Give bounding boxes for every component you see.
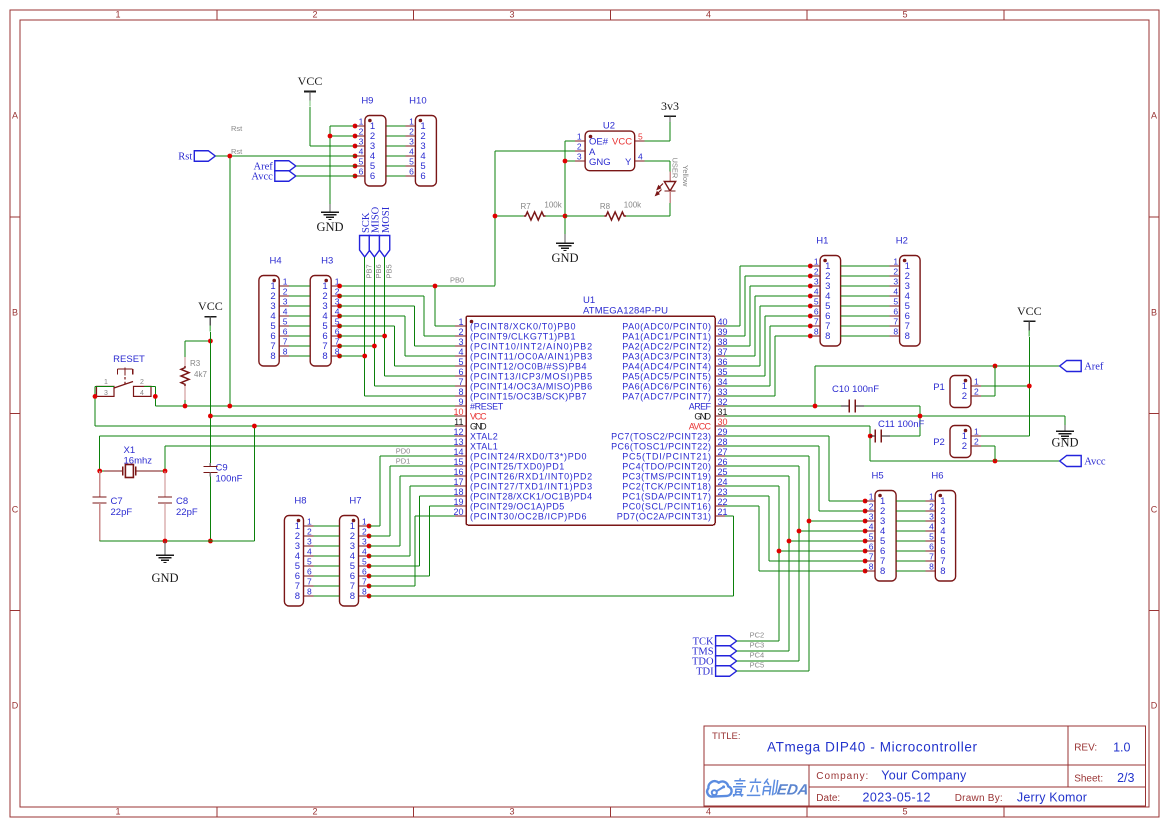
svg-text:U2: U2 bbox=[603, 120, 615, 131]
wires H7 to U1 port D staircase bbox=[369, 456, 455, 586]
svg-text:2: 2 bbox=[962, 441, 967, 452]
resistor R8 bbox=[565, 201, 670, 221]
junction dots R7 row bbox=[493, 214, 568, 219]
svg-text:3: 3 bbox=[509, 10, 514, 20]
svg-text:5: 5 bbox=[458, 357, 463, 367]
net flag TDI bbox=[696, 666, 737, 678]
wires H4 to H3 bbox=[289, 286, 310, 356]
svg-text:D: D bbox=[12, 701, 19, 711]
svg-text:34: 34 bbox=[718, 377, 728, 387]
svg-text:4k7: 4k7 bbox=[194, 370, 207, 379]
svg-text:2: 2 bbox=[362, 527, 367, 537]
svg-text:33: 33 bbox=[718, 387, 728, 397]
svg-text:5: 5 bbox=[409, 157, 414, 167]
svg-text:2: 2 bbox=[893, 267, 898, 277]
wire AVCC to C11 and Avcc flag bbox=[725, 426, 1060, 461]
svg-text:1: 1 bbox=[115, 807, 120, 817]
svg-text:PC5(TDI/PCINT21): PC5(TDI/PCINT21) bbox=[622, 451, 711, 461]
net flag TCK bbox=[693, 636, 737, 648]
svg-text:8: 8 bbox=[270, 351, 275, 362]
svg-text:21: 21 bbox=[718, 507, 728, 517]
svg-text:3: 3 bbox=[458, 337, 463, 347]
svg-text:6: 6 bbox=[409, 167, 414, 177]
wire U2 pin1/pin3 to GND bbox=[565, 141, 575, 234]
svg-text:GND: GND bbox=[470, 421, 487, 431]
svg-text:7: 7 bbox=[929, 552, 934, 562]
svg-text:6: 6 bbox=[458, 367, 463, 377]
svg-text:VCC: VCC bbox=[298, 74, 323, 88]
svg-text:8: 8 bbox=[283, 347, 288, 357]
svg-text:AVCC: AVCC bbox=[689, 421, 712, 431]
svg-text:8: 8 bbox=[940, 566, 945, 577]
svg-text:R7: R7 bbox=[521, 202, 532, 211]
svg-text:7: 7 bbox=[307, 577, 312, 587]
svg-text:PC6(TOSC1/PCINT22): PC6(TOSC1/PCINT22) bbox=[611, 441, 711, 451]
svg-text:C8: C8 bbox=[176, 496, 188, 507]
svg-text:C7: C7 bbox=[111, 496, 123, 507]
ground symbol GND (right) bbox=[1051, 425, 1078, 450]
svg-text:VCC: VCC bbox=[1017, 304, 1042, 318]
svg-text:11: 11 bbox=[454, 417, 463, 427]
wire net PB0 bbox=[339, 286, 495, 326]
svg-text:(PCINT25/TXD0)PD1: (PCINT25/TXD0)PD1 bbox=[470, 461, 564, 471]
svg-text:1: 1 bbox=[115, 10, 120, 20]
svg-text:(PCINT14/OC3A/MISO)PB6: (PCINT14/OC3A/MISO)PB6 bbox=[470, 381, 592, 391]
svg-text:2: 2 bbox=[962, 391, 967, 402]
svg-text:GND: GND bbox=[551, 251, 578, 265]
wires JTAG flags to verticals bbox=[737, 641, 809, 671]
svg-text:1: 1 bbox=[359, 117, 364, 127]
junction dots #RESET row bbox=[183, 339, 233, 409]
svg-text:AREF: AREF bbox=[689, 401, 712, 411]
junction dot GND row bbox=[252, 424, 257, 429]
svg-text:GND: GND bbox=[694, 411, 711, 421]
svg-text:1: 1 bbox=[869, 492, 874, 502]
junction dot RESET left bbox=[93, 394, 98, 399]
svg-text:PC2: PC2 bbox=[750, 631, 765, 640]
svg-text:(PCINT28/XCK1/OC1B)PD4: (PCINT28/XCK1/OC1B)PD4 bbox=[470, 491, 592, 501]
svg-text:ATMEGA1284P-PU: ATMEGA1284P-PU bbox=[583, 306, 668, 317]
junction dot RESET right bbox=[153, 394, 158, 399]
svg-text:4: 4 bbox=[706, 807, 711, 817]
svg-text:(PCINT30/OC2B/ICP)PD6: (PCINT30/OC2B/ICP)PD6 bbox=[470, 511, 587, 521]
svg-text:MOSI: MOSI bbox=[381, 206, 392, 233]
svg-text:(PCINT13/ICP3/MOSI)PB5: (PCINT13/ICP3/MOSI)PB5 bbox=[470, 371, 592, 381]
wire 3v3 to U2 pin5 bbox=[645, 122, 670, 141]
net labels PC2 PC3 PC4 PC5 (gray) bbox=[750, 631, 765, 670]
svg-text:12: 12 bbox=[453, 427, 463, 437]
svg-text:3: 3 bbox=[577, 152, 582, 162]
svg-text:PA2(ADC2/PCINT2): PA2(ADC2/PCINT2) bbox=[622, 341, 711, 351]
svg-text:Avcc: Avcc bbox=[1084, 457, 1106, 468]
svg-text:3: 3 bbox=[283, 297, 288, 307]
net flag SCK bbox=[360, 212, 372, 257]
wire VCC right vertical to P1/P2 bbox=[981, 337, 1030, 436]
svg-text:8: 8 bbox=[825, 331, 830, 342]
wire P1 pin2 to Aref bbox=[981, 366, 995, 396]
svg-text:5: 5 bbox=[902, 807, 907, 817]
header H7 bbox=[340, 496, 369, 607]
wire PB0/A net: U2 pin2 down to PB0 row bbox=[495, 151, 575, 286]
junction dot U2 GND bbox=[563, 159, 568, 164]
svg-text:(PCINT11/OC0A/AIN1)PB3: (PCINT11/OC0A/AIN1)PB3 bbox=[470, 351, 592, 361]
svg-text:4: 4 bbox=[307, 547, 312, 557]
wire GND row to U1 pin11 bbox=[95, 426, 455, 541]
svg-text:PD1: PD1 bbox=[396, 457, 411, 466]
wires SCK/MISO/MOSI verticals to U1 pins 8/7/6 bbox=[365, 257, 455, 396]
svg-text:R8: R8 bbox=[600, 202, 611, 211]
svg-text:26: 26 bbox=[718, 457, 728, 467]
svg-text:6: 6 bbox=[283, 327, 288, 337]
svg-text:1: 1 bbox=[814, 257, 819, 267]
svg-text:7: 7 bbox=[362, 577, 367, 587]
svg-text:5: 5 bbox=[283, 317, 288, 327]
svg-text:5: 5 bbox=[893, 297, 898, 307]
junction dots H1 column bbox=[808, 264, 813, 339]
junction dot VCC/P1 bbox=[1027, 384, 1032, 389]
wires U1 port C to H5 staircase bbox=[725, 436, 865, 571]
svg-text:1: 1 bbox=[104, 379, 108, 386]
svg-text:8: 8 bbox=[814, 327, 819, 337]
svg-text:C: C bbox=[1151, 505, 1158, 515]
svg-text:2: 2 bbox=[577, 142, 582, 152]
svg-text:5: 5 bbox=[929, 532, 934, 542]
power flag VCC (left) bbox=[198, 299, 223, 332]
svg-text:H10: H10 bbox=[409, 96, 426, 107]
junction dots crystal row bbox=[97, 469, 167, 474]
svg-text:35: 35 bbox=[718, 367, 728, 377]
svg-text:B: B bbox=[12, 308, 18, 318]
svg-text:2: 2 bbox=[814, 267, 819, 277]
svg-text:22pF: 22pF bbox=[176, 507, 198, 518]
svg-text:22: 22 bbox=[718, 497, 728, 507]
svg-text:Drawn By:: Drawn By: bbox=[955, 793, 1003, 804]
wire VCC vertical through C9 to GND rail bbox=[209, 332, 211, 541]
capacitor C8 bbox=[158, 471, 198, 541]
svg-text:A: A bbox=[12, 111, 18, 121]
svg-text:2: 2 bbox=[409, 127, 414, 137]
svg-text:6: 6 bbox=[370, 171, 375, 182]
svg-text:PA3(ADC3/PCINT3): PA3(ADC3/PCINT3) bbox=[622, 351, 711, 361]
svg-text:3: 3 bbox=[869, 512, 874, 522]
svg-text:5: 5 bbox=[814, 297, 819, 307]
svg-text:R3: R3 bbox=[190, 359, 201, 368]
svg-text:6: 6 bbox=[893, 307, 898, 317]
title block bbox=[704, 726, 1145, 806]
header H5 bbox=[865, 471, 896, 582]
svg-text:1: 1 bbox=[458, 317, 463, 327]
svg-text:100k: 100k bbox=[544, 201, 562, 210]
power flag VCC (right) bbox=[1017, 304, 1042, 337]
wire GND vertical to H9 pins 1-2 bbox=[330, 126, 355, 204]
svg-text:H8: H8 bbox=[294, 496, 306, 507]
svg-text:4: 4 bbox=[359, 147, 364, 157]
svg-text:H3: H3 bbox=[321, 256, 333, 267]
svg-text:2: 2 bbox=[307, 527, 312, 537]
svg-text:1: 1 bbox=[974, 377, 979, 387]
junction dot Rst bbox=[227, 154, 232, 159]
svg-text:TITLE:: TITLE: bbox=[712, 731, 741, 742]
net labels PD0 PD1 (gray) bbox=[396, 447, 411, 466]
svg-text:3: 3 bbox=[359, 137, 364, 147]
svg-text:5: 5 bbox=[638, 132, 643, 142]
svg-text:25: 25 bbox=[718, 467, 728, 477]
svg-text:4: 4 bbox=[706, 10, 711, 20]
svg-text:2: 2 bbox=[869, 502, 874, 512]
wire GND bottom rail bbox=[100, 540, 255, 542]
svg-text:4: 4 bbox=[362, 547, 367, 557]
svg-text:17: 17 bbox=[453, 477, 463, 487]
svg-text:VCC: VCC bbox=[612, 137, 632, 148]
svg-text:27: 27 bbox=[718, 447, 728, 457]
junction dots H3 column bbox=[337, 284, 342, 359]
svg-text:10: 10 bbox=[453, 407, 463, 417]
svg-text:5: 5 bbox=[869, 532, 874, 542]
svg-text:P2: P2 bbox=[933, 437, 945, 448]
svg-text:5: 5 bbox=[362, 557, 367, 567]
svg-text:7: 7 bbox=[869, 552, 874, 562]
svg-text:RESET: RESET bbox=[113, 354, 145, 365]
svg-text:(PCINT15/OC3B/SCK)PB7: (PCINT15/OC3B/SCK)PB7 bbox=[470, 391, 587, 401]
svg-text:Aref: Aref bbox=[1084, 362, 1104, 373]
junction dot GND rail / C8 bbox=[163, 539, 168, 544]
svg-text:8: 8 bbox=[893, 327, 898, 337]
net flag Rst bbox=[178, 151, 215, 163]
pushbutton RESET bbox=[97, 354, 152, 397]
svg-text:1: 1 bbox=[409, 117, 414, 127]
svg-text:X1: X1 bbox=[124, 445, 136, 456]
svg-text:3: 3 bbox=[104, 390, 108, 397]
svg-text:6: 6 bbox=[420, 171, 425, 182]
svg-text:PD0: PD0 bbox=[396, 447, 411, 456]
net flag Avcc (left) bbox=[251, 171, 295, 183]
crystal X1 16mhz bbox=[100, 445, 165, 478]
header H6 bbox=[925, 471, 955, 582]
svg-text:38: 38 bbox=[718, 337, 728, 347]
wires H3 to U1 port B staircase bbox=[340, 296, 455, 366]
header P2 bbox=[933, 426, 981, 458]
svg-text:PC4: PC4 bbox=[750, 651, 765, 660]
svg-text:2: 2 bbox=[140, 379, 144, 386]
svg-text:PA6(ADC6/PCINT6): PA6(ADC6/PCINT6) bbox=[622, 381, 711, 391]
svg-text:4: 4 bbox=[140, 390, 144, 397]
svg-text:100nF: 100nF bbox=[216, 474, 243, 485]
power flag VCC (top, H9 area) bbox=[298, 74, 323, 107]
svg-text:4: 4 bbox=[869, 522, 874, 532]
svg-text:37: 37 bbox=[718, 347, 728, 357]
svg-text:Y: Y bbox=[625, 157, 632, 168]
capacitor C11 bbox=[870, 419, 924, 443]
svg-text:6: 6 bbox=[307, 567, 312, 577]
svg-text:15: 15 bbox=[453, 457, 463, 467]
svg-text:C11 100nF: C11 100nF bbox=[878, 419, 924, 430]
svg-text:5: 5 bbox=[307, 557, 312, 567]
svg-text:A: A bbox=[1151, 111, 1157, 121]
svg-text:8: 8 bbox=[929, 562, 934, 572]
junction dots H9 column bbox=[328, 124, 358, 179]
wire XTAL2 to U1 pin12 bbox=[100, 436, 455, 471]
svg-text:2: 2 bbox=[312, 10, 317, 20]
svg-text:H5: H5 bbox=[871, 471, 883, 482]
svg-text:4: 4 bbox=[638, 152, 643, 162]
junction dots H7 column bbox=[367, 524, 372, 599]
svg-text:Avcc: Avcc bbox=[251, 172, 273, 183]
header H8 bbox=[284, 496, 313, 607]
svg-text:2: 2 bbox=[458, 327, 463, 337]
svg-text:PC5: PC5 bbox=[750, 661, 765, 670]
svg-text:7: 7 bbox=[814, 317, 819, 327]
svg-text:(PCINT9/CLKG7T1)PB1: (PCINT9/CLKG7T1)PB1 bbox=[470, 331, 576, 341]
svg-text:28: 28 bbox=[718, 437, 728, 447]
svg-text:18: 18 bbox=[453, 487, 463, 497]
junction dots SPI column bbox=[362, 334, 387, 359]
svg-text:PB6: PB6 bbox=[374, 264, 383, 278]
svg-text:2: 2 bbox=[312, 807, 317, 817]
header H2 bbox=[890, 236, 921, 347]
svg-text:1: 1 bbox=[577, 132, 582, 142]
svg-text:ATmega DIP40 - Microcontroller: ATmega DIP40 - Microcontroller bbox=[767, 740, 978, 755]
wires JTAG verticals down to flags bbox=[779, 521, 809, 671]
capacitor C10 bbox=[832, 384, 920, 436]
net flag Avcc (right) bbox=[1060, 456, 1106, 468]
net flag TMS bbox=[692, 646, 737, 658]
svg-text:U1: U1 bbox=[583, 295, 595, 306]
svg-text:2: 2 bbox=[929, 502, 934, 512]
svg-text:6: 6 bbox=[362, 567, 367, 577]
svg-text:8: 8 bbox=[362, 587, 367, 597]
svg-text:2: 2 bbox=[283, 287, 288, 297]
svg-text:39: 39 bbox=[718, 327, 728, 337]
svg-text:GND: GND bbox=[151, 571, 178, 585]
svg-text:2: 2 bbox=[974, 437, 979, 447]
svg-text:19: 19 bbox=[453, 497, 463, 507]
svg-text:(PCINT12/OC0B/#SS)PB4: (PCINT12/OC0B/#SS)PB4 bbox=[470, 361, 587, 371]
svg-text:1: 1 bbox=[929, 492, 934, 502]
svg-text:7: 7 bbox=[458, 377, 463, 387]
svg-text:24: 24 bbox=[718, 477, 728, 487]
svg-text:8: 8 bbox=[458, 387, 463, 397]
junction dots VCC net bbox=[208, 414, 213, 544]
resistor R3 bbox=[181, 341, 210, 406]
svg-text:8: 8 bbox=[880, 566, 885, 577]
svg-text:4: 4 bbox=[409, 147, 414, 157]
svg-text:3: 3 bbox=[893, 277, 898, 287]
svg-text:23: 23 bbox=[718, 487, 728, 497]
wire AREF to C10 and Aref flag bbox=[725, 366, 1060, 406]
svg-text:PA1(ADC1/PCINT1): PA1(ADC1/PCINT1) bbox=[622, 331, 711, 341]
svg-text:3: 3 bbox=[929, 512, 934, 522]
svg-text:2: 2 bbox=[359, 127, 364, 137]
svg-text:2023-05-12: 2023-05-12 bbox=[863, 791, 931, 805]
svg-text:40: 40 bbox=[718, 317, 728, 327]
svg-text:Company:: Company: bbox=[816, 771, 868, 782]
capacitor C7 bbox=[93, 471, 133, 541]
svg-text:USER: USER bbox=[671, 158, 680, 179]
svg-text:16: 16 bbox=[453, 467, 463, 477]
svg-text:PB7: PB7 bbox=[365, 264, 374, 278]
ground symbol GND (H9 area) bbox=[316, 204, 343, 234]
svg-text:Sheet:: Sheet: bbox=[1074, 774, 1103, 785]
svg-text:30: 30 bbox=[718, 417, 728, 427]
svg-text:32: 32 bbox=[718, 397, 728, 407]
svg-text:22pF: 22pF bbox=[111, 507, 133, 518]
svg-text:8: 8 bbox=[905, 331, 910, 342]
svg-text:H9: H9 bbox=[361, 96, 373, 107]
svg-text:REV:: REV: bbox=[1074, 743, 1097, 754]
svg-text:PA4(ADC4/PCINT4): PA4(ADC4/PCINT4) bbox=[622, 361, 711, 371]
svg-text:GND: GND bbox=[316, 220, 343, 234]
wire RESET right side to #RESET row bbox=[144, 386, 155, 406]
svg-text:5: 5 bbox=[359, 157, 364, 167]
wire GND row to right GND bbox=[725, 416, 1065, 425]
svg-text:H1: H1 bbox=[816, 236, 828, 247]
wire VCC row to U1 pin10 bbox=[210, 415, 455, 417]
svg-text:6: 6 bbox=[814, 307, 819, 317]
net labels PB7 PB6 PB5 (gray) bbox=[365, 264, 394, 278]
wires H5 to H6 bbox=[896, 501, 925, 571]
svg-text:8: 8 bbox=[869, 562, 874, 572]
svg-text:1: 1 bbox=[307, 517, 312, 527]
svg-text:PD7(OC2A/PCINT31): PD7(OC2A/PCINT31) bbox=[617, 511, 711, 521]
wire Avcc to H9 pin6 bbox=[296, 175, 355, 177]
wires H8 to H7 bbox=[314, 526, 340, 596]
led USER Yellow bbox=[645, 158, 690, 217]
svg-text:Date:: Date: bbox=[816, 793, 840, 804]
svg-text:VCC: VCC bbox=[198, 299, 223, 313]
svg-text:100k: 100k bbox=[624, 201, 642, 210]
svg-text:6: 6 bbox=[359, 167, 364, 177]
header P1 bbox=[933, 376, 981, 408]
header H4 bbox=[259, 256, 289, 367]
svg-text:PB5: PB5 bbox=[384, 264, 393, 278]
net flag TDO bbox=[692, 656, 737, 668]
svg-text:TDI: TDI bbox=[696, 667, 714, 678]
svg-text:13: 13 bbox=[453, 437, 463, 447]
wire net #RESET row bbox=[155, 405, 455, 407]
svg-text:3v3: 3v3 bbox=[661, 99, 679, 113]
svg-text:PC1(SDA/PCINT17): PC1(SDA/PCINT17) bbox=[622, 491, 711, 501]
wire VCC to H9 pin3 bbox=[310, 107, 355, 146]
ic U2 bbox=[575, 120, 645, 170]
svg-text:Rst: Rst bbox=[178, 152, 192, 163]
net flag Aref (right) bbox=[1060, 361, 1104, 373]
svg-text:D: D bbox=[1151, 701, 1158, 711]
svg-text:PB0: PB0 bbox=[450, 276, 464, 285]
svg-text:P1: P1 bbox=[933, 382, 945, 393]
svg-text:H7: H7 bbox=[349, 496, 361, 507]
svg-text:3: 3 bbox=[814, 277, 819, 287]
svg-text:4: 4 bbox=[458, 347, 463, 357]
svg-text:3: 3 bbox=[409, 137, 414, 147]
svg-text:XTAL1: XTAL1 bbox=[470, 441, 498, 451]
svg-text:Rst: Rst bbox=[231, 147, 243, 156]
net flag Aref (left) bbox=[254, 161, 296, 173]
svg-text:(PCINT8/XCK0/T0)PB0: (PCINT8/XCK0/T0)PB0 bbox=[470, 321, 576, 331]
wire RESET left side to GND row bbox=[95, 386, 114, 426]
header H1 bbox=[810, 236, 841, 347]
junction dots H5 column bbox=[777, 499, 868, 574]
junction dots Aref net bbox=[813, 364, 998, 409]
svg-text:(PCINT26/RXD1/INT0)PD2: (PCINT26/RXD1/INT0)PD2 bbox=[470, 471, 592, 481]
svg-text:PC3(TMS/PCINT19): PC3(TMS/PCINT19) bbox=[622, 471, 711, 481]
svg-text:PC2(TCK/PCINT18): PC2(TCK/PCINT18) bbox=[622, 481, 711, 491]
svg-text:1: 1 bbox=[893, 257, 898, 267]
svg-text:4: 4 bbox=[283, 307, 288, 317]
capacitor C9 bbox=[203, 463, 242, 485]
svg-text:8: 8 bbox=[307, 587, 312, 597]
svg-text:2: 2 bbox=[974, 387, 979, 397]
svg-text:4: 4 bbox=[929, 522, 934, 532]
